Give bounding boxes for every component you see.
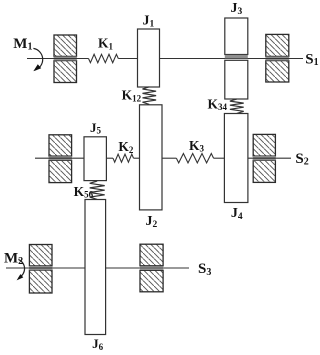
shaft S2 wire segment left (start to J5) — [35, 157, 84, 159]
spring K56 — [90, 181, 105, 199]
gear mesh bar under J3 — [225, 55, 248, 58]
shaft S2 wire segment (spring K2 to J2) — [134, 157, 140, 159]
shaft S1 wire segment left (M1 to spring K1) — [27, 58, 89, 60]
inertia J4 — [224, 114, 248, 203]
torque arrow M2 — [17, 259, 25, 280]
torque arrow M1 — [33, 48, 42, 71]
bearing on shaft S1 left (hatched support) — [54, 35, 77, 83]
bearing on shaft S3 right (hatched support) — [140, 244, 163, 292]
spring K1 — [89, 54, 119, 62]
spring K2 — [113, 154, 134, 162]
spring K34 — [230, 99, 244, 113]
bearing on shaft S2 left (hatched support) — [49, 135, 72, 183]
spring K3 — [176, 154, 213, 163]
spring K12 — [143, 87, 157, 105]
shaft S3 wire segment left (M2 to J6) — [6, 267, 85, 269]
inertia J1 — [138, 29, 160, 87]
shaft S2 wire segment (J2 to spring K3) — [162, 157, 176, 159]
inertia J5 — [84, 137, 106, 181]
shaft S3 wire segment right (J6 to S3 end) — [106, 267, 189, 269]
bearing on shaft S1 right (hatched support) — [265, 34, 289, 82]
shaft S1 wire segment middle (spring K1 to J1) — [118, 58, 137, 60]
bearing on shaft S2 right (hatched support) — [253, 134, 276, 182]
inertia J3 upper disk — [225, 18, 248, 55]
inertia J2 — [140, 105, 163, 210]
shaft S2 wire segment (J5 to spring K2) — [106, 157, 113, 159]
inertia J6 — [85, 200, 106, 335]
shaft S2 wire segment right (J4 to S2 end) — [248, 157, 291, 159]
inertia J3 lower disk — [225, 60, 248, 99]
bearing on shaft S3 left (hatched support) — [29, 245, 52, 294]
shaft S1 wire segment right (J1 to S1 end) — [160, 58, 304, 60]
shaft S2 wire segment (spring K3 to J4) — [214, 157, 225, 159]
